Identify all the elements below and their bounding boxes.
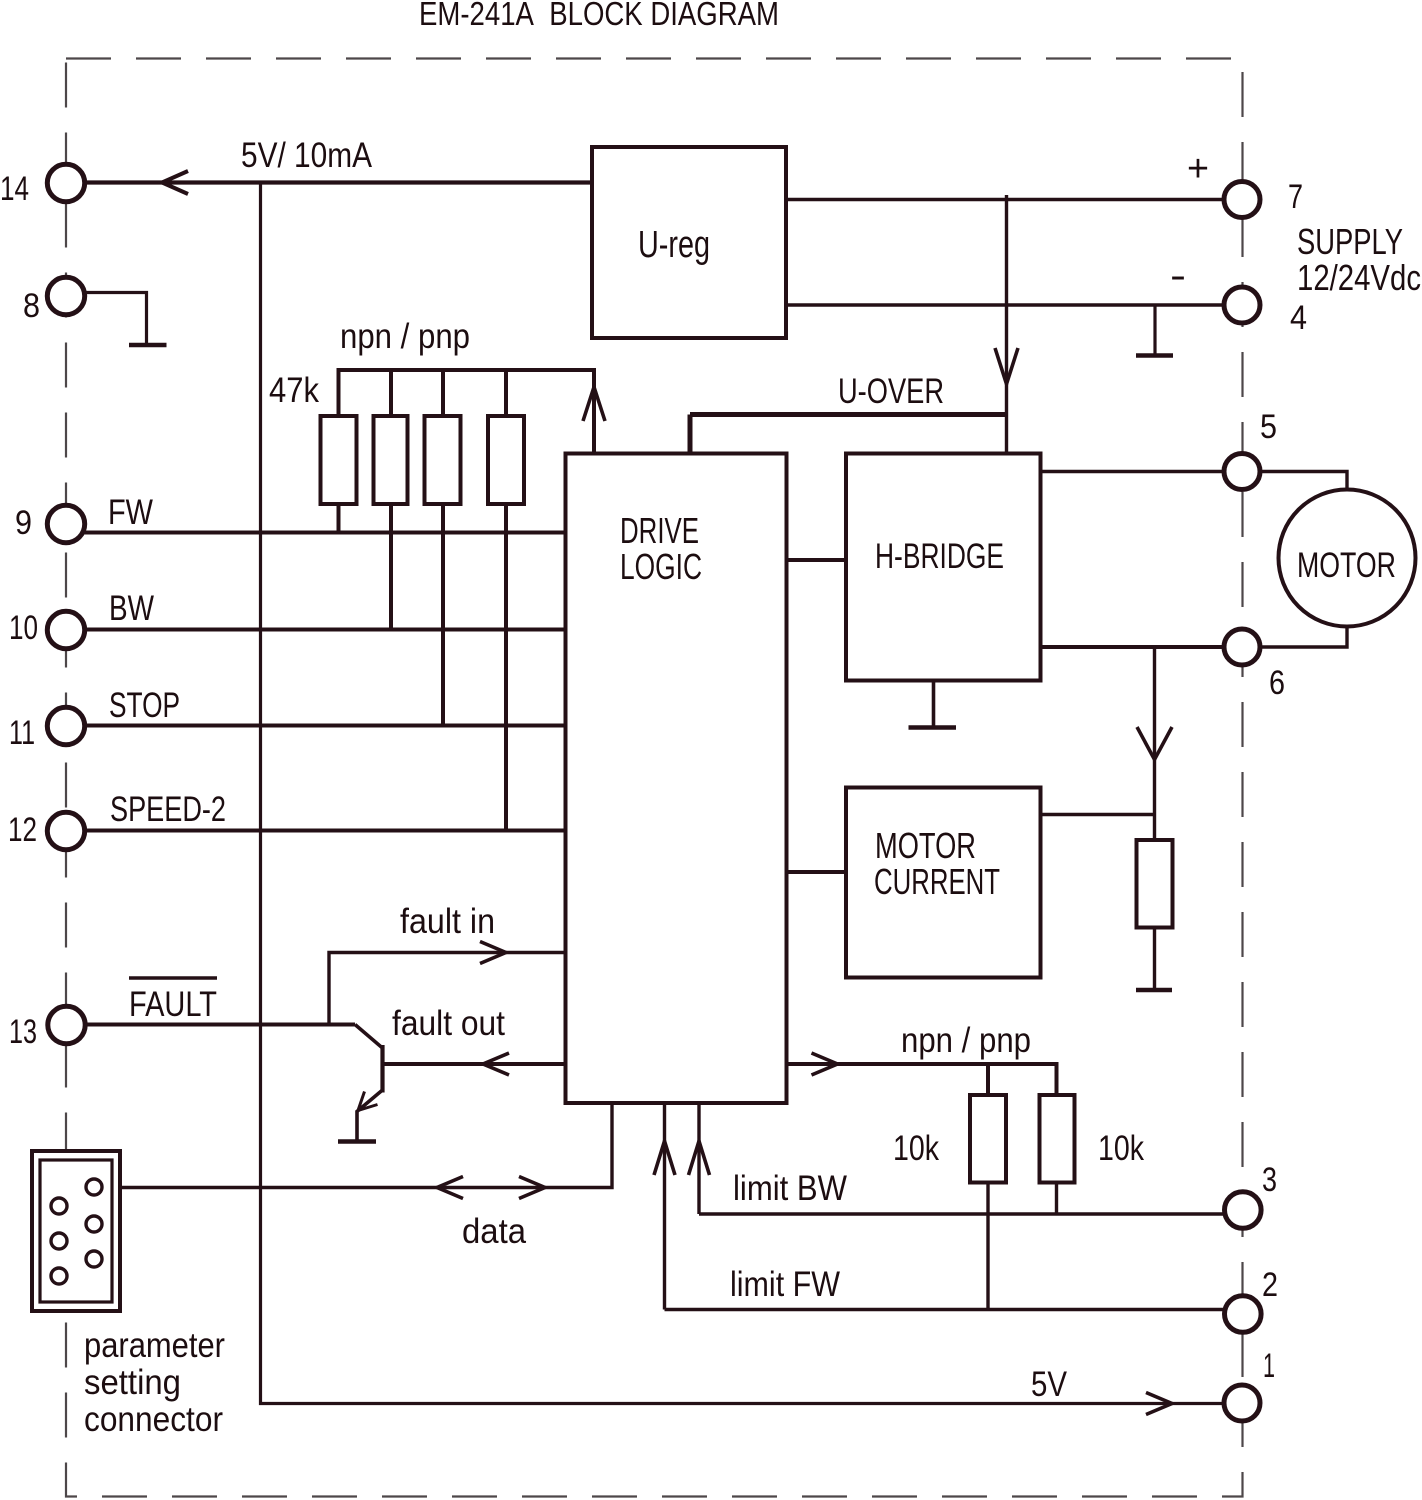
arrow up on limit FW vertical — [654, 1141, 675, 1175]
connector pin 1 — [86, 1179, 102, 1195]
wire resistor 10k #1 top stub — [986, 1064, 990, 1095]
svg-text:fault out: fault out — [392, 1004, 505, 1043]
svg-text:U-reg: U-reg — [638, 224, 710, 266]
wire 5V/10mA from U-reg to terminal 14 — [85, 180, 593, 184]
svg-text:5: 5 — [1260, 408, 1277, 446]
terminal 4 — [1224, 287, 1260, 323]
arrow left on data wire — [437, 1177, 463, 1199]
svg-text:MOTOR: MOTOR — [1297, 546, 1396, 585]
connector pin 3 — [86, 1216, 102, 1232]
svg-text:parameter: parameter — [84, 1326, 225, 1365]
terminal 10 — [47, 611, 84, 648]
wire resistor #1 bottom to limit FW line — [986, 1183, 989, 1310]
svg-text:14: 14 — [0, 170, 29, 208]
svg-text:13: 13 — [9, 1013, 37, 1051]
svg-text:MOTOR: MOTOR — [875, 825, 976, 866]
wire motor to terminal 6 — [1260, 625, 1347, 647]
wire motor current sense — [1153, 647, 1156, 840]
svg-text:limit BW: limit BW — [733, 1169, 847, 1208]
ground symbol on supply minus — [1153, 305, 1156, 355]
wire resistor #2 bottom to limit BW line — [1055, 1183, 1058, 1215]
enclosure dashed border — [66, 59, 1243, 1497]
wire limit FW vertical — [663, 1103, 666, 1310]
svg-text:10k: 10k — [893, 1129, 939, 1168]
svg-text:SUPPLY: SUPPLY — [1297, 221, 1403, 262]
terminal 1 — [1224, 1385, 1260, 1421]
wire resistor 4 stubs — [504, 370, 508, 831]
svg-text:5V: 5V — [1031, 1365, 1068, 1404]
arrow left fault out — [483, 1053, 509, 1075]
svg-text:+: + — [1187, 148, 1209, 190]
svg-text:7: 7 — [1288, 178, 1303, 216]
svg-text:H-BRIDGE: H-BRIDGE — [875, 537, 1004, 576]
svg-text:FAULT: FAULT — [129, 985, 217, 1024]
svg-text:npn / pnp: npn / pnp — [901, 1021, 1031, 1060]
svg-text:STOP: STOP — [109, 686, 180, 725]
svg-text:3: 3 — [1262, 1161, 1277, 1199]
parameter setting connector outer — [32, 1151, 120, 1311]
svg-text:EM-241A BLOCK DIAGRAM: EM-241A BLOCK DIAGRAM — [419, 0, 779, 32]
svg-text:10: 10 — [9, 609, 38, 647]
wire MOTOR CURRENT to sense line — [1041, 813, 1155, 816]
wire FW input — [85, 531, 566, 535]
arrow up into drive logic top — [583, 387, 605, 421]
wire SPEED-2 input — [85, 829, 566, 833]
wire STOP input — [85, 724, 566, 728]
DRIVE LOGIC box — [566, 454, 787, 1104]
terminal 11 — [47, 707, 84, 744]
arrow down on sense wire — [1137, 727, 1172, 760]
motor circle — [1279, 490, 1416, 627]
resistor 47k #2 — [374, 416, 408, 504]
parameter setting connector inner — [40, 1160, 112, 1302]
svg-text:LOGIC: LOGIC — [620, 546, 702, 587]
wire resistor 1 bottom to FW line — [337, 504, 341, 533]
wire resistor 3 stubs — [441, 370, 445, 726]
wire npn/pnp pull-down rail — [787, 1064, 1057, 1095]
wire limit BW vertical — [697, 1103, 700, 1214]
wire resistor 2 stubs — [389, 370, 393, 630]
wire H-BRIDGE to terminal 6 — [1041, 645, 1224, 649]
U-reg box — [592, 147, 786, 338]
wire U-OVER horizontal — [690, 415, 1007, 454]
svg-text:47k: 47k — [269, 371, 319, 410]
terminal 5 — [1224, 454, 1260, 490]
connector pin 4 — [51, 1233, 67, 1249]
svg-text:BW: BW — [109, 589, 154, 628]
svg-text:1: 1 — [1263, 1347, 1275, 1385]
ground symbol at terminal 8 — [129, 343, 167, 348]
terminal 9 — [47, 505, 84, 542]
svg-text:CURRENT: CURRENT — [874, 861, 1000, 902]
wire pull-up rail — [339, 370, 595, 454]
svg-text:fault in: fault in — [400, 902, 495, 941]
arrow right on data wire — [519, 1177, 545, 1199]
terminal 12 — [47, 812, 84, 849]
arrow right on rail — [812, 1053, 838, 1075]
wire terminal 5 to motor — [1260, 472, 1347, 491]
connector pin 6 — [51, 1268, 67, 1284]
svg-text:-: - — [1170, 255, 1186, 297]
wire FAULT from terminal 13 — [85, 1023, 356, 1027]
svg-text:SPEED-2: SPEED-2 — [110, 790, 226, 829]
svg-text:connector: connector — [84, 1400, 223, 1439]
resistor 47k #1 — [321, 416, 357, 504]
arrow right on 5V wire — [1146, 1393, 1172, 1415]
svg-text:12/24Vdc: 12/24Vdc — [1297, 257, 1421, 298]
svg-text:4: 4 — [1290, 299, 1307, 337]
resistor 10k #1 — [970, 1095, 1006, 1183]
svg-text:6: 6 — [1269, 664, 1285, 702]
wire 5V rail vertical and bottom run to terminal 1 — [261, 183, 1225, 1404]
arrow on emitter — [358, 1092, 378, 1111]
arrow right fault in — [480, 942, 506, 964]
svg-text:limit FW: limit FW — [730, 1265, 840, 1304]
resistor 47k #4 — [488, 416, 524, 504]
svg-text:DRIVE: DRIVE — [620, 510, 699, 551]
terminal 8 — [47, 277, 84, 314]
wire U-over vertical from supply to H-BRIDGE — [1005, 195, 1008, 454]
svg-text:U-OVER: U-OVER — [838, 372, 944, 411]
svg-text:9: 9 — [15, 504, 32, 542]
wire drive logic to H-BRIDGE — [787, 558, 847, 562]
arrow left on 5V/10mA wire — [162, 171, 188, 194]
resistor shunt — [1137, 840, 1173, 928]
terminal 13 — [48, 1006, 85, 1043]
svg-text:npn / pnp: npn / pnp — [340, 317, 470, 356]
MOTOR CURRENT box — [846, 788, 1041, 978]
wire fault in branch — [329, 953, 566, 1025]
transistor Q1 emitter — [357, 1090, 383, 1141]
wire terminal 8 to ground — [85, 293, 147, 346]
svg-text:12: 12 — [8, 811, 37, 849]
svg-text:2: 2 — [1262, 1266, 1278, 1304]
ground symbol below Q1 — [338, 1139, 376, 1144]
terminal 14 — [47, 164, 84, 201]
ground symbol below shunt — [1136, 988, 1172, 993]
wire limit BW line to terminal 3 — [699, 1212, 1226, 1215]
wire limit FW line to terminal 2 — [665, 1308, 1227, 1311]
svg-text:8: 8 — [23, 287, 40, 325]
terminal 3 — [1225, 1192, 1262, 1229]
terminal 2 — [1225, 1296, 1262, 1333]
wire H-BRIDGE to terminal 5 — [1041, 470, 1224, 473]
wire data vertical from drive logic — [120, 1103, 612, 1188]
transistor Q1 base wire fault out — [384, 1062, 566, 1066]
wire shunt to ground — [1153, 928, 1156, 991]
transistor Q1 collector — [355, 1025, 383, 1049]
svg-text:FW: FW — [108, 493, 153, 532]
svg-text:5V/ 10mA: 5V/ 10mA — [241, 136, 373, 175]
svg-text:setting: setting — [84, 1363, 181, 1402]
transistor Q1 base bar — [380, 1045, 384, 1093]
connector pin 2 — [51, 1198, 67, 1214]
wire drive logic to MOTOR CURRENT — [787, 870, 847, 874]
terminal 6 — [1224, 629, 1260, 665]
arrow up on limit BW vertical — [689, 1141, 710, 1175]
svg-text:11: 11 — [9, 714, 35, 752]
H-BRIDGE box — [846, 454, 1041, 681]
wire BW input — [85, 628, 566, 632]
resistor 10k #2 — [1040, 1095, 1075, 1183]
wire supply plus from U-reg to terminal 7 — [786, 198, 1224, 201]
svg-text:10k: 10k — [1098, 1129, 1144, 1168]
arrow down on U-over vertical — [995, 348, 1018, 384]
ground symbol below H-BRIDGE — [932, 681, 936, 728]
connector pin 5 — [86, 1251, 102, 1267]
svg-text:data: data — [462, 1212, 526, 1251]
terminal 7 — [1224, 182, 1260, 218]
wire supply minus from U-reg to terminal 4 — [786, 303, 1224, 306]
resistor 47k #3 — [425, 416, 461, 504]
